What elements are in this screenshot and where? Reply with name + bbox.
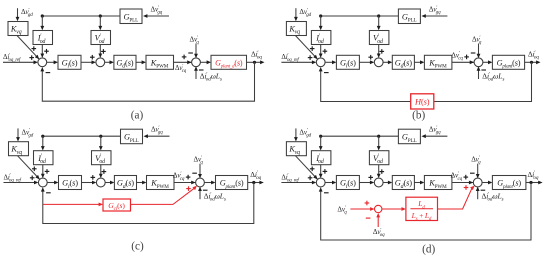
- summing junction S4 red (d): [375, 205, 382, 212]
- sign − (feedback input of S1) (a): [46, 72, 51, 74]
- sign − (top input of S3) (d): [470, 172, 475, 174]
- wire: Δv_q into S3 (b): [477, 44, 481, 59]
- sign + (reference input of S1) (d): [308, 176, 313, 181]
- wire: Δi_oq_ref input into S1 (d): [281, 181, 316, 185]
- block V_od (d): [369, 151, 389, 165]
- sign − (top input of S3) (b): [471, 52, 476, 54]
- label Δi_od ωL_s (b): [482, 71, 504, 82]
- block G_PLL (d): [398, 129, 420, 144]
- wire: K_PWM to S3 (d): [452, 181, 474, 185]
- block V_od (a): [91, 31, 111, 45]
- label Δi_oq (d): [528, 170, 539, 181]
- wire: Δv_gq input into G_PLL (c): [144, 134, 170, 138]
- label Δv_gd (b): [299, 8, 311, 18]
- wire: plant output Δi_oq (a): [247, 60, 265, 64]
- label Δv_gd (a): [21, 8, 33, 18]
- sign − (top input of S3) (a): [188, 52, 193, 54]
- wire: G_i to S2 (d): [359, 181, 374, 185]
- sign − red (bottom input of S4) (d): [366, 217, 371, 219]
- sign − (bottom input of S3) (b): [481, 69, 486, 71]
- wire: PLL bus down into V_od (b): [377, 16, 381, 30]
- wire: Δv_gd input arrow into K_vq (a): [16, 8, 20, 21]
- wire: L fraction output into S3 (d): [438, 186, 475, 209]
- summing junction S2 (c): [96, 178, 105, 187]
- sign + (I_od input of S1) (a): [44, 49, 49, 54]
- block V_od (b): [369, 31, 389, 45]
- wire: G_i to S2 (b): [359, 60, 374, 64]
- wire: Δv_gq input into G_PLL (d): [421, 134, 447, 138]
- block G_i(s) (a): [58, 55, 81, 69]
- block G_d(s) (d): [392, 176, 414, 190]
- summing junction S1 (c): [38, 178, 47, 187]
- wire: S3 to plant (b): [483, 60, 493, 64]
- wire: feedback loop (c): [41, 183, 254, 224]
- summing junction S2 (a): [96, 58, 105, 67]
- block K_PWM (b): [424, 55, 452, 69]
- svg-text:H(s): H(s): [414, 98, 430, 107]
- sign + (K_vq input of S1) (d): [310, 167, 315, 172]
- wire: S1 to G_i (c): [47, 181, 58, 185]
- sign + (I_od input of S1) (c): [45, 169, 50, 174]
- junction dot above V_od (a): [99, 14, 102, 17]
- wire: Δi_od ωL into S3 (d): [476, 187, 480, 200]
- label Δi_od ωL_s (a): [200, 71, 222, 82]
- wire: PLL bus down into I_od (b): [319, 16, 323, 30]
- sign + red (left input of S4) (d): [365, 201, 370, 206]
- sign + (V_od input of S2) (c): [102, 169, 107, 174]
- label Δi_oq (b): [528, 50, 539, 61]
- sign + (K_vq input of S1) (a): [32, 46, 37, 51]
- sign + (V_od input of S2) (a): [101, 49, 106, 54]
- wire: PLL bus down into I_od (a): [40, 16, 44, 30]
- wire: Δi_od ωL into S3 (a): [194, 66, 198, 79]
- label Δv_gq (c): [151, 126, 163, 136]
- summing junction S1 (b): [316, 58, 325, 67]
- label Δi_oq_ref (c): [4, 173, 22, 183]
- sign − (feedback input of S1) (d): [324, 192, 329, 194]
- sign + (left input of S2) (d): [368, 175, 373, 180]
- sign + (left input of S2) (a): [90, 55, 95, 60]
- wire: S2 to G_d (d): [383, 181, 392, 185]
- sign − (bottom input of S3) (c): [203, 189, 208, 191]
- wire: G_d to K_PWM (a): [136, 60, 146, 64]
- label Δv_gq (a): [151, 6, 163, 16]
- junction dot above V_od (c): [99, 135, 102, 138]
- wire: Δv_gq input into G_PLL (a): [143, 14, 169, 18]
- wire: Δv_q into red sum S4 (d): [350, 207, 374, 211]
- block G_plant (d): [492, 176, 526, 190]
- block K_PWM (d): [424, 176, 452, 190]
- wire: Δv_gd input arrow into K_vq (b): [294, 8, 298, 21]
- wire: PLL bus down into V_od (a): [98, 16, 102, 30]
- sign + red (G_ci input of S3) (c): [186, 186, 191, 191]
- wire: G_PLL output bus (b): [321, 15, 399, 17]
- wire: G_i to S2 (a): [81, 60, 96, 64]
- label Δv_gq (d): [429, 126, 441, 136]
- sign + (left input of S2) (b): [368, 55, 373, 60]
- wire: plant output Δi_oq (d): [526, 181, 543, 185]
- summing junction S3 (b): [474, 58, 483, 67]
- sign + (left input of S2) (c): [91, 175, 96, 180]
- svg-text:(b): (b): [412, 109, 425, 121]
- wire: Δi_oq_ref input into S1 (a): [3, 60, 38, 64]
- wire: I_od output into S1 (a): [40, 45, 44, 58]
- wire: Δv_gd input arrow into K_vq (d): [294, 128, 298, 141]
- wire: S1 to G_i (b): [325, 60, 336, 64]
- summing junction S2 (d): [374, 178, 383, 187]
- label Δv_gd (d): [299, 128, 311, 138]
- wire: Δv_gd input arrow into K_vq (c): [16, 128, 20, 141]
- block I_od (d): [311, 151, 331, 165]
- sign + (reference input of S1) (c): [30, 176, 35, 181]
- wire: I_od output into S1 (c): [41, 165, 45, 178]
- block G_plant (b): [492, 55, 524, 69]
- caption (b): [412, 109, 425, 121]
- caption (a): [131, 109, 144, 121]
- wire: G_PLL output bus (a): [42, 15, 120, 17]
- sign − (feedback input of S1) (c): [46, 192, 51, 194]
- sign + red (feedforward input of S3) (d): [464, 185, 469, 190]
- sign + (reference input of S1) (b): [308, 55, 313, 60]
- sign − (bottom input of S3) (d): [481, 189, 486, 191]
- sign + (left input of S3) (b): [464, 55, 469, 60]
- block G_i(s) (c): [59, 176, 82, 190]
- wire: S3 to plant (c): [204, 181, 215, 185]
- block K_vq (c): [9, 142, 29, 156]
- wire: Δi_od ωL into S3 (c): [198, 187, 202, 200]
- junction dot at output tap (a): [253, 61, 256, 64]
- summing junction S3 (c): [196, 178, 205, 187]
- wire: V_od output into S2 (d): [377, 165, 381, 178]
- sign − (feedback input of S1) (b): [324, 72, 329, 74]
- wire: Δv_q into S3 (a): [194, 44, 198, 59]
- block G_i(s) (d): [336, 176, 359, 190]
- label Δi_oq_ref (a): [3, 53, 21, 63]
- summing junction S1 (d): [316, 178, 325, 187]
- wire: G_d to K_PWM (d): [414, 181, 424, 185]
- block K_vq (a): [8, 22, 28, 36]
- wire: plant output Δi_oq (c): [248, 181, 264, 185]
- wire: S2 to G_d (a): [105, 60, 114, 64]
- wire: S2 to G_d (b): [383, 60, 392, 64]
- block V_od (c): [92, 151, 112, 165]
- block G_plant (a): [211, 55, 247, 69]
- wire: G_PLL output bus (c): [43, 135, 121, 137]
- wire: K_vq output diagonal to summing junction S1 (a): [17, 36, 39, 60]
- sign + (left input of S3) (a): [182, 55, 187, 60]
- junction dot above V_od (d): [377, 135, 380, 138]
- sign + (I_od input of S1) (d): [323, 169, 328, 174]
- block I_od (b): [311, 31, 331, 45]
- wire: V_od output into S2 (b): [377, 45, 381, 58]
- sign − (top input of S3) (c): [192, 172, 197, 174]
- wire: S1 to G_i (a): [47, 60, 58, 64]
- sign + (left input of S3) (c): [186, 175, 191, 180]
- wire: S4 to L fraction block (d): [382, 207, 406, 211]
- wire: PLL bus down into V_od (c): [99, 136, 103, 150]
- label Δv_cq (a): [175, 64, 187, 74]
- label Δi_oq_ref (b): [281, 53, 299, 63]
- wire: K_PWM to S3 (a): [174, 60, 192, 64]
- svg-text:(a): (a): [131, 109, 144, 121]
- wire: Δv_gq input into G_PLL (b): [421, 14, 447, 18]
- sign + (K_vq input of S1) (c): [32, 167, 37, 172]
- label Δv_q (a): [190, 36, 200, 46]
- wire: feedback loop (a): [40, 62, 254, 101]
- sign + (V_od input of S2) (d): [380, 169, 385, 174]
- wire: V_od output into S2 (a): [98, 45, 102, 58]
- label Δi_oq (a): [251, 50, 262, 61]
- wire: plant output Δi_oq (b): [525, 60, 541, 64]
- wire: S1 to G_i (d): [325, 181, 336, 185]
- block K_vq (b): [286, 22, 306, 36]
- block G_plant (c): [216, 176, 248, 190]
- junction dot at output tap (b): [530, 61, 533, 64]
- svg-text:(d): (d): [422, 243, 435, 255]
- label Δv_cq (c): [173, 171, 185, 182]
- label Δi_oq_ref (d): [281, 173, 299, 183]
- wire: Δv_q into S3 (d): [476, 164, 480, 179]
- sign + (V_od input of S2) (b): [380, 49, 385, 54]
- summing junction S2 (b): [374, 58, 383, 67]
- block L_d/(L_s+L_d) red (d): [406, 197, 438, 222]
- block G_PLL (a): [120, 9, 142, 24]
- label Δv_q (d): [471, 156, 481, 166]
- block K_PWM (a): [146, 55, 174, 69]
- label Δv_gd (c): [22, 128, 34, 138]
- junction dot above I_od (c): [41, 135, 44, 138]
- label Δv_cq (b): [451, 51, 463, 62]
- wire: Δv_oq into red sum S4 (d): [376, 213, 380, 227]
- block G_d(s) (c): [114, 176, 136, 190]
- sign + (reference input of S1) (a): [29, 55, 34, 60]
- junction dot above V_od (b): [377, 14, 380, 17]
- block H(s) red (b): [411, 94, 434, 109]
- wire: G_d to K_PWM (b): [414, 60, 424, 64]
- wire: Δi_oq_ref input into S1 (c): [4, 181, 39, 185]
- block K_vq (d): [286, 142, 306, 156]
- label Δv_q at red sum (d): [337, 206, 347, 216]
- label Δi_oq (c): [250, 170, 261, 181]
- wire: G_d to K_PWM (c): [137, 181, 147, 185]
- caption (d): [422, 243, 435, 255]
- junction dot above I_od (b): [319, 14, 322, 17]
- wire: K_vq output diagonal to summing junction S1 (b): [295, 36, 317, 60]
- wire: V_od output into S2 (c): [99, 165, 103, 178]
- sign + (left input of S3) (d): [464, 175, 469, 180]
- wire: K_vq output diagonal to summing junction S1 (d): [295, 156, 317, 180]
- block G_d(s) (a): [114, 55, 136, 69]
- sign + (K_vq input of S1) (b): [310, 46, 315, 51]
- summing junction S1 (a): [38, 58, 47, 67]
- caption (c): [131, 240, 144, 252]
- wire: feedback loop (d): [319, 183, 531, 241]
- wire: feedback loop (b): [319, 62, 532, 101]
- sign − (bottom input of S3) (a): [199, 69, 204, 71]
- junction dot at output tap (d): [529, 181, 532, 184]
- block G_PLL (b): [398, 9, 420, 24]
- block K_PWM (c): [147, 176, 175, 190]
- junction dot at output tap (c): [252, 181, 255, 184]
- junction dot above I_od (a): [41, 14, 44, 17]
- wire: G_PLL output bus (d): [321, 135, 399, 137]
- block I_od (c): [34, 151, 54, 165]
- wire: Δi_oq_ref input into S1 (b): [281, 60, 316, 64]
- block G_i(s) (b): [336, 55, 359, 69]
- wire: K_vq output diagonal to summing junction S1 (c): [18, 156, 40, 180]
- wire: I_od output into S1 (b): [319, 45, 323, 58]
- block G_d(s) (b): [392, 55, 414, 69]
- wire: Δv_q into S3 (c): [198, 164, 202, 179]
- wire: K_PWM to S3 (c): [174, 181, 196, 185]
- wire: K_PWM to S3 (b): [452, 60, 474, 64]
- label Δi_od ωL_s (d): [482, 192, 504, 203]
- sign + (I_od input of S1) (b): [323, 49, 328, 54]
- label Δv_gq (b): [429, 6, 441, 16]
- wire: G_ci output into S3 (c): [131, 186, 197, 205]
- wire: PLL bus down into I_od (c): [41, 136, 45, 150]
- label Δv_cq (d): [451, 171, 463, 182]
- label Δv_q (b): [472, 36, 482, 46]
- summing junction S3 (a): [192, 58, 201, 67]
- wire: red feedforward tap to G_ci (c): [43, 203, 103, 207]
- junction dot above I_od (d): [319, 135, 322, 138]
- wire: S3 to plant (d): [482, 181, 492, 185]
- block I_od (a): [33, 31, 53, 45]
- label Δv_q (c): [194, 156, 204, 166]
- wire: I_od output into S1 (d): [319, 165, 323, 178]
- svg-text:(c): (c): [131, 240, 144, 252]
- wire: Δi_od ωL into S3 (b): [477, 66, 481, 79]
- block G_PLL (c): [121, 129, 143, 144]
- label Δv_oq (d): [373, 228, 385, 238]
- summing junction S3 (d): [473, 178, 482, 187]
- wire: G_i to S2 (c): [82, 181, 97, 185]
- wire: S2 to G_d (c): [105, 181, 114, 185]
- wire: PLL bus down into V_od (d): [377, 136, 381, 150]
- label Δi_od ωL_s (c): [204, 192, 226, 203]
- wire: PLL bus down into I_od (d): [319, 136, 323, 150]
- block G_ci(s) red (c): [103, 199, 131, 212]
- wire: S3 to plant (a): [200, 60, 211, 64]
